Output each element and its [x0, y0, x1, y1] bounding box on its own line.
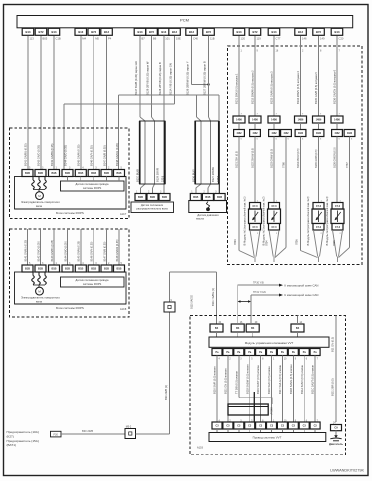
ROPS1 footer divider	[15, 208, 127, 210]
svg-text:B145 GN/W (0.35): B145 GN/W (0.35)	[78, 241, 81, 262]
transistor Q1 ignition coil module 1	[250, 203, 261, 210]
svg-text:19E: 19E	[176, 37, 181, 41]
wire coil unit1 feed	[254, 137, 256, 203]
svg-text:4182: 4182	[283, 132, 289, 135]
wire ROPS2 pin6 feed	[93, 229, 95, 265]
svg-text:B144 GN/O (0.35): B144 GN/O (0.35)	[63, 145, 67, 166]
svg-text:B1B: B1B	[65, 172, 70, 175]
svg-text:ЛГ249: ЛГ249	[271, 407, 274, 415]
connector pin box VVT module pin5	[245, 349, 255, 356]
transistor Q4 ignition coil module 4	[332, 203, 343, 210]
svg-text:B131 2BK (0.5) катушка 1: B131 2BK (0.5) катушка 1	[235, 73, 239, 104]
svg-text:C20: C20	[339, 37, 344, 41]
wire PCM-G1-1 to ROPS1 pin1	[27, 36, 29, 170]
wire stub harness pin1	[271, 429, 273, 433]
svg-text:B1B: B1B	[91, 172, 96, 175]
svg-text:B145 GN/W (0.35): B145 GN/W (0.35)	[77, 145, 81, 166]
svg-text:B30 2R/B (1): B30 2R/B (1)	[164, 385, 168, 400]
wire node feed ROPS1 pin4 from horizontal bus	[63, 104, 65, 170]
svg-text:C77: C77	[276, 37, 281, 41]
PCM connector pin box group3-3	[158, 28, 170, 35]
svg-text:B1B: B1B	[162, 196, 167, 199]
svg-text:Л704: Л704	[266, 240, 269, 246]
wire PCM-G4-1 vertical segment	[191, 36, 193, 85]
ROPS1 inner module box	[15, 177, 127, 210]
connector pin box ROPS1 pin4	[62, 170, 73, 177]
wire VVT pin7 vertical	[314, 356, 316, 423]
svg-text:B13A Y/B (0.35) экран GN: B13A Y/B (0.35) экран GN	[169, 63, 173, 95]
connector pin box VVT module pin10	[277, 349, 287, 356]
svg-text:B148 GN/GN (0.35): B148 GN/GN (0.35)	[116, 239, 119, 261]
svg-text:B126 2BR/W (0.35) экран Y: B126 2BR/W (0.35) экран Y	[186, 61, 190, 95]
svg-text:P4: P4	[108, 37, 112, 41]
wire ignition coil 4 converging leads	[333, 230, 337, 257]
wire PCM-G3-1 to CMP sensor pin1	[139, 35, 141, 117]
wire inline connector to vertical feed	[136, 433, 170, 435]
connector pin box VVT module pin1	[267, 349, 277, 356]
svg-text:101: 101	[165, 37, 170, 41]
svg-text:A103: A103	[197, 447, 203, 450]
wire PCM-G3-3 to CMP sensor pin3 along shield	[163, 35, 165, 193]
resistor box row2-8	[344, 130, 355, 137]
wire stub VVT top 16 to module	[237, 332, 239, 337]
svg-text:4182: 4182	[334, 132, 340, 135]
connector pin box ROPS2 pin2	[35, 265, 46, 272]
connector pin box VVT module pin9	[288, 349, 298, 356]
wire ROPS2 pin4 feed	[67, 229, 69, 265]
wire ignition coil 1 converging leads	[250, 230, 254, 257]
wire fused feed down-left vertical	[169, 272, 171, 434]
wire stub harness pin9	[292, 429, 294, 433]
resistor box row2-5	[295, 130, 306, 137]
svg-text:2Z0/5: 2Z0/5	[162, 175, 165, 182]
svg-text:B142 GN/O (0.35): B142 GN/O (0.35)	[36, 145, 40, 166]
wire horizontal bus y104 from PCM-G3-4	[64, 103, 175, 105]
wire coil unit3 feed	[318, 137, 320, 203]
svg-text:Л705: Л705	[333, 240, 336, 246]
svg-text:B1B: B1B	[217, 196, 222, 199]
PCM connector pin box group5-3	[268, 28, 280, 35]
inline connector F32 on fused feed	[164, 302, 175, 312]
svg-text:B1B: B1B	[138, 196, 143, 199]
wire PCM-G2-3 to ROPS1 pin6	[106, 36, 108, 170]
svg-text:B13: B13	[237, 30, 242, 34]
PCM connector pin box group6-2	[313, 28, 325, 35]
resistor box row2-7	[332, 130, 343, 137]
svg-text:B116 5A/O (0.5) клапан: B116 5A/O (0.5) клапан	[267, 366, 271, 394]
VVT module dashed enclosure	[190, 316, 346, 455]
svg-text:M5: M5	[95, 37, 99, 41]
svg-text:B134 2BK/V (0.5): B134 2BK/V (0.5)	[297, 148, 300, 168]
svg-text:A1C8: A1C8	[120, 308, 127, 311]
motor coil symbols ROPS1	[32, 180, 35, 189]
wire VVT pin14 stub to enclosure	[297, 316, 299, 325]
wire stub VVT top 34 to module	[216, 332, 218, 337]
svg-text:14B6: 14B6	[252, 119, 258, 122]
svg-text:B136 GN/GN (0.5): B136 GN/GN (0.5)	[334, 147, 337, 168]
svg-text:B135 GN/B (0.5): B135 GN/B (0.5)	[315, 149, 318, 168]
svg-text:B1B: B1B	[25, 172, 30, 175]
junction dot at G4 wires	[207, 83, 209, 85]
PCM connector pin box group3-4	[169, 28, 181, 35]
svg-text:системы ROPS: системы ROPS	[83, 282, 102, 286]
svg-text:Датчик положения привода: Датчик положения привода	[76, 278, 109, 282]
wire stub VVT top 14 to module	[297, 332, 299, 337]
svg-text:Датчик положения: Датчик положения	[141, 203, 164, 207]
wire VVT pin9 vertical	[292, 356, 294, 423]
svg-text:C7-0: C7-0	[335, 227, 341, 229]
wire row1-row2 stub 6	[336, 123, 338, 130]
ROPS2 position sensor sub-box	[61, 277, 125, 287]
wire stub harness pin2	[227, 429, 229, 433]
svg-text:TP31 Y/GN: TP31 Y/GN	[253, 291, 266, 294]
svg-text:B133 GN/W (0.5): B133 GN/W (0.5)	[271, 149, 274, 168]
svg-text:Модуль управления клапанами VV: Модуль управления клапанами VVT	[245, 341, 294, 345]
PCM connector pin box group1-2	[35, 28, 47, 35]
connector pin box VVT module pin3	[234, 349, 244, 356]
svg-text:B110 5A/R (0.5) клапан: B110 5A/R (0.5) клапан	[213, 366, 217, 394]
motor coil symbols ROPS2	[32, 276, 35, 285]
svg-text:C7-0: C7-0	[272, 206, 278, 208]
svg-text:4182: 4182	[236, 132, 242, 135]
dark wire through VVT harness	[253, 392, 255, 422]
svg-text:B143 GN/BK (0.35): B143 GN/BK (0.35)	[51, 240, 54, 262]
shielded cable box right (CKP)	[195, 121, 219, 184]
connector pin box ROPS2 pin7	[101, 265, 112, 272]
PCM connector pin box group3-2	[146, 28, 158, 35]
connector pin box ROPS1 pin5	[75, 170, 86, 177]
motor circle M ROPS1	[36, 192, 44, 200]
svg-text:Датчик давления: Датчик давления	[197, 213, 219, 217]
svg-text:B72: B72	[39, 30, 44, 34]
svg-text:B119 5A5/Y (0.5) клапан: B119 5A5/Y (0.5) клапан	[256, 365, 260, 394]
svg-text:4182: 4182	[252, 132, 258, 135]
wire stub harness pin10	[281, 429, 283, 433]
svg-text:B141 GN/BU (0.35): B141 GN/BU (0.35)	[24, 240, 27, 262]
svg-text:14B6: 14B6	[334, 119, 340, 122]
svg-text:B137 BU/B (0.35) экран GN: B137 BU/B (0.35) экран GN	[134, 61, 138, 95]
svg-text:IB Модуль №4 (катушка с/свечой: IB Модуль №4 (катушка с/свечой заж. №4)	[326, 196, 329, 246]
wire stub VVT top 29 to module	[252, 332, 254, 337]
svg-text:К маломощной шине CAN: К маломощной шине CAN	[285, 293, 319, 297]
wire PCM-G1-2 to ROPS1 pin2	[40, 36, 42, 170]
svg-text:(ВАТ1): (ВАТ1)	[7, 443, 16, 447]
ground symbol engine	[334, 435, 338, 438]
svg-text:B1B: B1B	[51, 268, 56, 271]
svg-text:B147 GN/B (0.35): B147 GN/B (0.35)	[102, 145, 106, 166]
svg-text:B115 5A/DG: B115 5A/DG	[190, 295, 193, 309]
connector pin box ROPS1 pin8	[114, 170, 125, 177]
svg-text:B143 GN/BK (0.35): B143 GN/BK (0.35)	[50, 144, 54, 166]
svg-text:A1C7: A1C7	[120, 213, 127, 216]
wire VVT pin8 vertical	[260, 356, 262, 423]
svg-text:149: 149	[320, 37, 325, 41]
motor circle M ROPS2	[36, 287, 44, 295]
PCM connector pin box group4-1	[186, 28, 198, 35]
svg-text:B1B: B1B	[51, 172, 56, 175]
svg-text:масла: масла	[196, 218, 204, 221]
wire coil unit2 feed	[273, 137, 275, 203]
wire VVT module feed	[215, 272, 217, 324]
svg-text:B1B: B1B	[65, 268, 70, 271]
wire ROPS2 pin8 feed	[118, 229, 120, 265]
svg-text:распределительного вала: распределительного вала	[136, 208, 168, 211]
wire stub harness pin8	[260, 429, 262, 433]
wire coil feed 2	[254, 36, 256, 116]
svg-text:C7-0: C7-0	[253, 227, 259, 229]
wire CAN high horizontal	[238, 284, 280, 286]
svg-text:Двигатель: Двигатель	[329, 442, 343, 446]
connector pin box ROPS2 pin8	[114, 265, 125, 272]
wire ROPS2 pin5 feed	[80, 229, 82, 265]
svg-text:B7: B7	[142, 37, 146, 41]
svg-text:B13: B13	[161, 30, 166, 34]
svg-text:C7-0: C7-0	[316, 227, 322, 229]
svg-text:B1B: B1B	[78, 172, 83, 175]
wire CAN low vertical	[250, 295, 252, 324]
svg-text:B1B: B1B	[193, 196, 198, 199]
svg-text:Л767: Л767	[346, 162, 349, 168]
svg-text:4182: 4182	[316, 132, 322, 135]
svg-text:вала: вала	[36, 205, 42, 208]
connector pins CKP sensor	[190, 194, 201, 201]
svg-text:B11 GN (0.5): B11 GN (0.5)	[331, 337, 335, 352]
resistor box row2-6	[313, 130, 324, 137]
connector pin box VVT top 16	[231, 324, 244, 332]
svg-text:Датчик положения привода: Датчик положения привода	[76, 182, 109, 186]
svg-text:B147 GN/B (0.35): B147 GN/B (0.35)	[103, 241, 106, 261]
PCM connector pin box group2-1	[75, 28, 87, 35]
wire stub ROPS1 pin to sensor	[67, 177, 69, 182]
svg-text:B1B: B1B	[38, 268, 43, 271]
svg-text:B72: B72	[253, 30, 258, 34]
svg-text:IB Модуль №1 (катушка с/свечой: IB Модуль №1 (катушка с/свечой заж. №1)	[244, 196, 247, 246]
svg-text:B136 BU/Y: B136 BU/Y	[192, 169, 196, 182]
svg-text:B1B: B1B	[205, 196, 210, 199]
connector pin box VVT module pin8	[256, 349, 266, 356]
PCM connector pin box group1-3	[48, 28, 60, 35]
svg-text:B13: B13	[335, 30, 340, 34]
wire VVT pin1 vertical	[271, 356, 273, 423]
PCM connector pin box group6-1	[295, 28, 307, 35]
wire horizontal bus y95 to node B+	[118, 94, 219, 96]
wire CAN low horizontal	[251, 294, 280, 296]
svg-text:C7-0: C7-0	[335, 206, 341, 208]
wire PCM-G4-1 elbow horizontal y84	[192, 84, 209, 86]
connector pin box ROPS2 pin6	[88, 265, 99, 272]
svg-text:B1B: B1B	[104, 172, 109, 175]
PCM connector pin box group6-3	[331, 28, 343, 35]
wire ignition coil 3 converging leads	[314, 230, 318, 257]
wire row1-row2 stub 4	[300, 123, 302, 130]
connector pin box VVT module pin2	[223, 349, 233, 356]
svg-text:B11C 5A5/T (0.5) клапан: B11C 5A5/T (0.5) клапан	[311, 364, 315, 394]
resistor box row2-1	[234, 130, 245, 137]
svg-text:146: 146	[302, 37, 307, 41]
wire stub ROPS1 pin to sensor	[80, 177, 82, 182]
ROPS2 footer divider	[15, 303, 127, 305]
svg-text:B11B 5A5/G (0.5) клапан: B11B 5A5/G (0.5) клапан	[289, 364, 293, 394]
wire CKP sensor pin1 from y95 bus	[196, 95, 198, 117]
svg-text:B133 GN/W (0.5) катушка 3: B133 GN/W (0.5) катушка 3	[270, 71, 274, 104]
svg-text:B134 2BK/V (0.5) катушка 4: B134 2BK/V (0.5) катушка 4	[296, 71, 300, 104]
wire stub ROPS1 pin to sensor	[118, 177, 120, 182]
resistor box row1-1	[233, 116, 245, 123]
svg-text:IB Модуль №3 (катушка с/свечой: IB Модуль №3 (катушка с/свечой заж. №3)	[307, 196, 310, 246]
PCM connector pin box group2-3	[101, 28, 113, 35]
wire row1-row2 stub 1	[238, 123, 240, 130]
wire coil feed 3	[273, 36, 275, 116]
svg-text:Л706: Л706	[296, 239, 299, 245]
twisted pair arrows	[240, 301, 250, 303]
wire PCM-G2-2 to ROPS1 pin5	[93, 36, 95, 170]
wire node feed ROPS1 pin8 from horizontal bus	[117, 95, 119, 170]
svg-text:M5-2: M5-2	[126, 426, 132, 429]
svg-text:(К27): (К27)	[7, 434, 14, 438]
wire coil return 2	[300, 137, 302, 251]
wire stub harness pin5	[249, 429, 251, 433]
svg-text:B111 7A/BG (1): B111 7A/BG (1)	[211, 288, 215, 306]
wire coil extra feed B	[349, 137, 351, 248]
resistor box row2-4	[281, 130, 292, 137]
svg-text:B136 GN/GN (0.5) катушка 6: B136 GN/GN (0.5) катушка 6	[333, 69, 337, 104]
svg-text:B1B: B1B	[150, 196, 155, 199]
resistor box row1-6	[331, 116, 343, 123]
wire coil feed 6	[336, 36, 338, 116]
wire VVT ground vertical	[335, 316, 337, 423]
resistor box row1-3	[268, 116, 280, 123]
svg-text:B1B: B1B	[91, 268, 96, 271]
svg-text:B132 2BK/W (0.5): B132 2BK/W (0.5)	[252, 148, 255, 168]
wire ROPS2 pin3 feed	[53, 229, 55, 265]
svg-text:B1B: B1B	[116, 268, 121, 271]
ROPS2 inner module box	[15, 272, 127, 304]
wire horizontal B+ split y272	[170, 271, 217, 273]
connector pin box ROPS2 pin1	[22, 265, 33, 272]
svg-text:Провод системы VVT: Провод системы VVT	[253, 436, 282, 440]
svg-text:C40: C40	[193, 37, 198, 41]
inline connector block ЛГ249	[228, 404, 268, 415]
svg-text:Электродвигатель поворотного: Электродвигатель поворотного	[21, 200, 60, 204]
wire PCM-G3-4 vertical segment	[174, 36, 176, 104]
svg-text:B1B: B1B	[38, 172, 43, 175]
svg-text:C7-0: C7-0	[253, 206, 259, 208]
connector pin box VVT top 14	[291, 324, 304, 332]
resistor box row1-5	[313, 116, 325, 123]
connector pin box ROPS2 pin4	[62, 265, 73, 272]
svg-text:B13: B13	[298, 30, 303, 34]
connector pin box VVT module pin4	[212, 349, 222, 356]
svg-text:B142 GN/O (0.35): B142 GN/O (0.35)	[37, 241, 40, 261]
wire VVT pin2 vertical	[227, 356, 229, 423]
svg-text:2Z8/5: 2Z8/5	[217, 175, 220, 182]
svg-text:B6: B6	[153, 37, 157, 41]
svg-text:Блок системы ROPS: Блок системы ROPS	[56, 306, 84, 310]
svg-text:B13: B13	[52, 30, 57, 34]
wire coil feed 1	[238, 36, 240, 116]
wire PCM-G3-2 to CMP sensor pin2	[151, 35, 153, 117]
svg-text:M4: M4	[82, 37, 86, 41]
resistor box row2-2	[250, 130, 261, 137]
PCM connector pin box group1-1	[22, 28, 34, 35]
svg-text:4182: 4182	[271, 132, 277, 135]
wire coil feed 5	[318, 36, 320, 116]
svg-text:PCM: PCM	[180, 17, 189, 22]
svg-text:14B6: 14B6	[316, 119, 322, 122]
svg-text:C7-0: C7-0	[272, 227, 278, 229]
svg-text:вала: вала	[36, 300, 42, 303]
wire ROPS2 pin1 feed	[27, 229, 29, 265]
transistor Q3 ignition coil module 3	[313, 203, 324, 210]
svg-text:119: 119	[257, 37, 262, 41]
svg-text:B13: B13	[272, 30, 277, 34]
svg-text:11B: 11B	[210, 37, 215, 41]
svg-text:B128 2BY/B (0.35) экран B: B128 2BY/B (0.35) экран B	[158, 62, 162, 95]
wire coil extra feed A	[285, 137, 287, 248]
svg-text:B118 5A5/W (0.5) клапан: B118 5A5/W (0.5) клапан	[245, 364, 249, 394]
wire row1-row2 stub 5	[318, 123, 320, 130]
svg-text:4182: 4182	[298, 132, 304, 135]
svg-text:IB Модуль №2 (катушка с/свечой: IB Модуль №2 (катушка с/свечой заж. №2)	[263, 196, 266, 246]
svg-text:B13: B13	[172, 30, 177, 34]
svg-text:B1B: B1B	[25, 268, 30, 271]
wire stub harness pin7	[314, 429, 316, 433]
svg-text:113: 113	[30, 37, 35, 41]
connector pin box VVT module pin6	[299, 349, 309, 356]
wire coil feed 4	[300, 36, 302, 116]
wire ground stub	[335, 431, 337, 436]
CMP sensor body box	[131, 202, 174, 213]
svg-text:LWWANDKIT0279K: LWWANDKIT0279K	[330, 469, 364, 473]
wire ROPS2 pin7 feed	[106, 229, 108, 265]
svg-text:B127 2BR/W: B127 2BR/W	[211, 166, 215, 182]
svg-text:4182: 4182	[347, 132, 353, 135]
wire PCM-G4-2 to CKP sensor pin2	[208, 35, 210, 117]
svg-text:F30: F30	[54, 434, 59, 437]
ROPS block 2 dashed enclosure	[10, 229, 130, 317]
wire stub harness pin6	[303, 429, 305, 433]
svg-text:B141 GN/BU (0.35): B141 GN/BU (0.35)	[23, 143, 27, 166]
connector pin box VVT top 34	[210, 324, 223, 332]
svg-text:14B6: 14B6	[298, 119, 304, 122]
svg-text:B11A 5A5/V (0.5) клапан: B11A 5A5/V (0.5) клапан	[300, 364, 304, 394]
svg-text:B13: B13	[78, 30, 83, 34]
svg-text:Блок системы ROPS: Блок системы ROPS	[56, 211, 84, 215]
svg-text:B05: B05	[43, 37, 48, 41]
svg-text:системы ROPS: системы ROPS	[83, 186, 102, 190]
svg-text:B13: B13	[26, 30, 31, 34]
connector pin box ROPS2 pin3	[49, 265, 60, 272]
svg-text:Л703: Л703	[234, 239, 237, 245]
svg-text:B117 5A/LG (0.5) клапан: B117 5A/LG (0.5) клапан	[278, 364, 282, 394]
svg-text:B148 GN/GN (0.35): B148 GN/GN (0.35)	[115, 143, 119, 166]
ROPS block 1 dashed enclosure	[10, 128, 130, 219]
PCM connector pin box group4-2	[203, 28, 215, 35]
connector pin box ROPS1 pin2	[35, 170, 46, 177]
svg-text:14B6: 14B6	[236, 119, 242, 122]
shielded cable box left (CMP)	[140, 121, 166, 184]
svg-text:TT 5/B (0.5) клапан: TT 5/B (0.5) клапан	[234, 371, 238, 394]
wire VVT pin5 vertical	[249, 356, 251, 423]
resistor box row1-2	[249, 116, 261, 123]
inline connector K34 bottom	[125, 429, 136, 439]
PCM connector pin box group5-1	[233, 28, 245, 35]
svg-text:B1B: B1B	[104, 268, 109, 271]
svg-text:Электродвигатель поворотного: Электродвигатель поворотного	[21, 296, 60, 300]
wire ignition coil 2 converging leads	[269, 230, 273, 257]
svg-text:B1B: B1B	[78, 268, 83, 271]
svg-text:B129 2BY/B (0.35) экран W: B129 2BY/B (0.35) экран W	[146, 61, 150, 95]
